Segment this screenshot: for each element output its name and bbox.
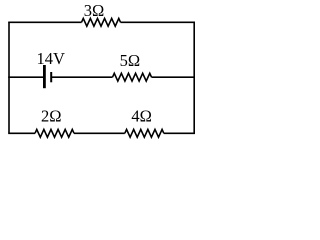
wire top right segment xyxy=(121,21,196,23)
wire middle center (battery to R5) xyxy=(52,76,113,78)
svg-text:4Ω: 4Ω xyxy=(131,106,152,125)
wire middle right segment xyxy=(152,76,196,78)
resistor 2-ohm zigzag (bottom left) xyxy=(35,129,74,137)
wire bottom middle segment xyxy=(74,132,125,134)
battery 14V long plate xyxy=(43,65,46,88)
wire middle left (battery feed) xyxy=(8,76,43,78)
wire left vertical xyxy=(8,22,10,133)
resistor 5-ohm zigzag (middle) xyxy=(113,73,152,81)
svg-text:14V: 14V xyxy=(36,49,65,68)
svg-text:3Ω: 3Ω xyxy=(84,1,105,20)
wire right vertical xyxy=(193,22,195,133)
resistor 4-ohm zigzag (bottom right) xyxy=(125,129,164,137)
wire top left segment xyxy=(8,21,81,23)
svg-text:2Ω: 2Ω xyxy=(41,107,62,126)
resistor 3-ohm zigzag (top) xyxy=(82,18,121,26)
wire bottom right segment xyxy=(164,132,195,134)
svg-text:5Ω: 5Ω xyxy=(120,51,141,70)
wire bottom left segment xyxy=(8,132,35,134)
battery 14V short plate xyxy=(50,72,52,82)
